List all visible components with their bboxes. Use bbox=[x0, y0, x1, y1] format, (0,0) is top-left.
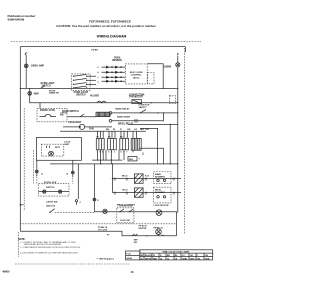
svg-text:⟨⟩: ⟨⟩ bbox=[114, 191, 116, 195]
wire bake row bbox=[30, 102, 178, 104]
svg-text:SEE INSTALLATION FOR GROUNDING: SEE INSTALLATION FOR GROUNDING. bbox=[24, 243, 62, 246]
switch bank row stubs bbox=[87, 76, 96, 84]
footer dashed separator bbox=[15, 263, 130, 265]
wire lock corner vertical bbox=[176, 212, 178, 235]
svg-text:⟨⟩: ⟨⟩ bbox=[114, 177, 116, 181]
svg-text:7: 7 bbox=[126, 152, 127, 154]
svg-text:SW: SW bbox=[134, 242, 137, 244]
flag connector C bbox=[75, 200, 77, 205]
wire L1 top bbox=[20, 46, 185, 48]
svg-text:ELEMENT: ELEMENT bbox=[155, 192, 166, 194]
node L1-light bbox=[20, 88, 21, 89]
svg-text:BAKE RELAY: BAKE RELAY bbox=[116, 108, 131, 111]
chevrons row1 bbox=[114, 177, 175, 181]
svg-text:BLACK: BLACK bbox=[145, 254, 152, 257]
svg-text:12: 12 bbox=[167, 258, 169, 260]
svg-text:OR-12: OR-12 bbox=[122, 190, 128, 192]
riser bbox=[163, 113, 165, 121]
svg-text:100W LAMP: 100W LAMP bbox=[31, 65, 45, 68]
svg-text:UNIT: UNIT bbox=[64, 144, 70, 146]
element hatch box row2 bbox=[134, 188, 143, 197]
wire element feed bbox=[112, 120, 164, 122]
chevrons row2 bbox=[114, 191, 175, 195]
svg-text:FAN MOTOR: FAN MOTOR bbox=[129, 96, 143, 99]
svg-text:(EOC): (EOC) bbox=[133, 78, 139, 80]
svg-text:16: 16 bbox=[141, 258, 143, 260]
wire bottom neutral bbox=[20, 231, 176, 236]
svg-text:⟨⟩: ⟨⟩ bbox=[142, 151, 144, 155]
svg-text:DOOR LATCH: DOOR LATCH bbox=[40, 109, 55, 112]
risers to terminal blocks bbox=[98, 131, 137, 138]
svg-text:SWITCH: SWITCH bbox=[46, 187, 55, 189]
wire row 124 bbox=[128, 123, 178, 125]
wire row 128 jog bbox=[140, 128, 158, 164]
broil dashed box bbox=[154, 187, 172, 203]
svg-text:OR: OR bbox=[127, 129, 131, 131]
svg-text:GRN: GRN bbox=[205, 258, 210, 260]
svg-text:2. COMPONENTS SHOWN WITH DOOR: 2. COMPONENTS SHOWN WITH DOOR IN CLOSED … bbox=[20, 247, 81, 249]
latch contacts bbox=[40, 114, 57, 116]
wire bus upper bbox=[60, 130, 146, 132]
svg-text:CAUTION: Use the part number o: CAUTION: Use the part number on all orde… bbox=[56, 24, 156, 28]
switch bank dots bbox=[73, 76, 87, 89]
chassis dashed bottom border bbox=[20, 223, 177, 225]
svg-text:WIRING DIAGRAM: WIRING DIAGRAM bbox=[97, 35, 127, 39]
svg-text:BK: BK bbox=[106, 129, 110, 131]
svg-text:JAMB SW: JAMB SW bbox=[49, 92, 59, 95]
wire tod row bbox=[112, 112, 178, 114]
svg-text:BR: BR bbox=[141, 129, 145, 131]
svg-text:DOOR LOCK: DOOR LOCK bbox=[120, 205, 134, 207]
chassis dashed top border bbox=[11, 41, 201, 43]
svg-text:BAKE 2850W: BAKE 2850W bbox=[117, 116, 130, 119]
svg-text:18: 18 bbox=[175, 258, 177, 260]
svg-text:⟨⟩: ⟨⟩ bbox=[145, 191, 147, 195]
relay small box bbox=[128, 157, 137, 161]
element row 2 bbox=[113, 192, 182, 194]
svg-text:NOTE:: NOTE: bbox=[18, 238, 26, 241]
thermal switch hump bbox=[97, 101, 106, 103]
lock motor bbox=[156, 210, 162, 216]
wire oven light row bbox=[20, 87, 178, 89]
flag connector B bbox=[71, 160, 74, 177]
riser to latch box bbox=[39, 103, 41, 109]
wire door switch row bbox=[67, 116, 96, 118]
svg-text:SWITCH: SWITCH bbox=[76, 94, 86, 97]
svg-text:R-12: R-12 bbox=[145, 176, 149, 178]
svg-text:LOCK MOTOR: LOCK MOTOR bbox=[154, 205, 169, 207]
svg-text:SAFETY: SAFETY bbox=[139, 106, 148, 109]
svg-text:WIRE COLOR CODE CHART: WIRE COLOR CODE CHART bbox=[163, 250, 191, 253]
node N-light bbox=[177, 88, 178, 89]
inner dashed vertical bbox=[23, 108, 25, 211]
svg-text:W: W bbox=[153, 255, 155, 257]
bottom switch bbox=[132, 234, 138, 236]
svg-text:DOOR SWITCH: DOOR SWITCH bbox=[62, 111, 79, 113]
title block table bbox=[140, 250, 213, 260]
svg-text:ORG: ORG bbox=[190, 258, 195, 260]
svg-text:43509: 43509 bbox=[126, 257, 132, 260]
svg-text:4. DISCONNECT POWER AT W.D. BE: 4. DISCONNECT POWER AT W.D. BEFORE SERVI… bbox=[20, 252, 79, 255]
svg-text:HI-LIMIT: HI-LIMIT bbox=[90, 95, 100, 97]
lamp lock bbox=[103, 209, 107, 213]
node left lower bbox=[20, 204, 22, 206]
lock switch dashed box bbox=[117, 208, 134, 223]
wire from clock right bbox=[139, 148, 164, 164]
wire lamp1 drop bbox=[25, 55, 27, 88]
element row 1 bbox=[113, 178, 182, 180]
EOC dashed box bbox=[125, 64, 147, 84]
svg-text:5995434509: 5995434509 bbox=[8, 18, 25, 22]
wire long mid bbox=[50, 163, 178, 165]
svg-text:ELEMENT: ELEMENT bbox=[155, 176, 166, 178]
lock contacts bbox=[39, 191, 70, 193]
inner dashed box bbox=[41, 144, 64, 156]
svg-text:GY: GY bbox=[134, 129, 138, 131]
wire left vertical bbox=[19, 47, 21, 232]
svg-text:P9 BK: P9 BK bbox=[92, 49, 99, 51]
element cap bbox=[135, 119, 137, 123]
riser 170 bbox=[169, 124, 171, 163]
svg-text:WHITE: WHITE bbox=[145, 258, 152, 260]
svg-text:MOTOR: MOTOR bbox=[139, 228, 147, 230]
svg-text:49900: 49900 bbox=[2, 270, 10, 274]
svg-text:BK-12: BK-12 bbox=[122, 176, 127, 178]
chassis dashed right border bbox=[184, 48, 186, 235]
svg-text:OVEN VENT: OVEN VENT bbox=[68, 122, 82, 124]
chassis dashed left lower border bbox=[18, 232, 20, 257]
inner dashed vertical 2 bbox=[33, 150, 35, 184]
svg-text:SENSOR: SENSOR bbox=[112, 60, 122, 62]
flag connector D bbox=[93, 198, 96, 201]
svg-text:3: 3 bbox=[114, 152, 115, 154]
switch lower left bbox=[50, 209, 55, 213]
switch bank contacts bbox=[74, 74, 87, 88]
wire right neutral vertical bbox=[177, 67, 179, 212]
mini revision table bbox=[126, 251, 140, 260]
svg-text:MOT: MOT bbox=[55, 147, 61, 149]
motor in box bbox=[49, 151, 54, 156]
flag connector A bbox=[35, 160, 38, 176]
bake dashed box bbox=[154, 172, 172, 184]
lamp B1 bbox=[24, 64, 28, 68]
svg-text:FAN: FAN bbox=[89, 127, 94, 130]
vent motor bbox=[79, 124, 84, 129]
svg-text:40W: 40W bbox=[34, 93, 40, 96]
oven light switch bbox=[41, 83, 56, 88]
lamp B2 bbox=[28, 92, 32, 96]
terminal block P1 bbox=[96, 138, 104, 149]
lamp B2 drop bbox=[29, 88, 31, 103]
svg-text:⟨⟩: ⟨⟩ bbox=[173, 191, 175, 195]
oven lamp bbox=[176, 63, 180, 67]
box ticks bbox=[47, 146, 50, 149]
aux dashed box bbox=[148, 73, 154, 84]
connector arrow rows bbox=[97, 67, 99, 83]
lock unit solid box bbox=[36, 138, 81, 161]
arrow connector top right bbox=[177, 53, 179, 56]
svg-text:REL: REL bbox=[129, 159, 134, 161]
stubs below blocks bbox=[98, 150, 134, 164]
svg-text:GRAY: GRAY bbox=[182, 257, 188, 260]
svg-text:RED: RED bbox=[153, 258, 158, 260]
svg-text:2: 2 bbox=[108, 152, 109, 154]
door latch dashed box bbox=[37, 108, 67, 121]
left circle end bbox=[109, 112, 112, 115]
dashed run to motor bbox=[55, 211, 95, 213]
gather line bbox=[92, 159, 122, 161]
small dashed box right bbox=[170, 96, 176, 104]
svg-text:100W: 100W bbox=[163, 64, 171, 68]
node block stub bbox=[97, 159, 98, 160]
svg-text:LOCK SW: LOCK SW bbox=[120, 220, 130, 222]
svg-text:CONTROL: CONTROL bbox=[131, 74, 142, 76]
svg-text:TO LOCK: TO LOCK bbox=[98, 229, 108, 231]
comb connector bbox=[96, 112, 110, 116]
svg-text:⟨⟩: ⟨⟩ bbox=[173, 177, 175, 181]
svg-text:M: M bbox=[79, 127, 81, 129]
svg-text:LATCH SW: LATCH SW bbox=[46, 201, 58, 204]
verticals down from mid bbox=[77, 164, 79, 199]
clock block bbox=[131, 138, 141, 150]
hook connector bbox=[25, 53, 27, 55]
block pin numbers bbox=[97, 151, 127, 154]
element hatch box row1 bbox=[134, 174, 143, 183]
terminal block P3 bbox=[120, 138, 129, 149]
relay box on wire bbox=[132, 100, 142, 104]
svg-text:UNLOCK: UNLOCK bbox=[46, 205, 56, 207]
svg-text:GN: GN bbox=[146, 129, 150, 131]
terminal block P2 bbox=[108, 138, 117, 149]
wire lock row bbox=[94, 211, 176, 213]
wire right corner bbox=[184, 47, 186, 52]
wire EOC to node bbox=[147, 64, 163, 89]
wire motor row bbox=[63, 126, 112, 128]
selector switch bank box bbox=[72, 74, 91, 91]
svg-text:© 1999 Frigidaire: © 1999 Frigidaire bbox=[96, 258, 114, 261]
